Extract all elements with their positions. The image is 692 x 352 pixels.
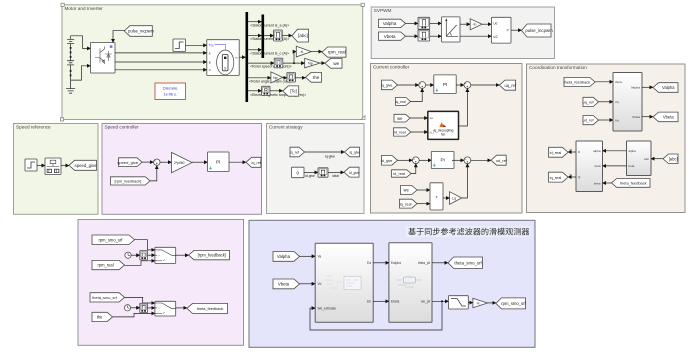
svg-text:Current controller: Current controller: [373, 65, 410, 70]
svg-text:-K-: -K-: [300, 50, 305, 54]
svg-text:A: A: [209, 51, 211, 55]
svg-text:the: the: [97, 315, 103, 320]
svg-text:theta_smo_srf: theta_smo_srf: [454, 260, 482, 265]
svg-text:id_give: id_give: [381, 159, 392, 163]
svg-text:[abc]: [abc]: [669, 156, 678, 161]
svg-text:S: S: [224, 66, 226, 70]
svg-text:fcn: fcn: [441, 132, 445, 136]
svg-text:pulse_incpwm: pulse_incpwm: [128, 29, 154, 34]
svg-text:Np: Np: [273, 76, 277, 80]
svg-text:Ealpha: Ealpha: [391, 261, 401, 265]
svg-text:Ud: Ud: [493, 22, 497, 26]
svg-text:id_real: id_real: [393, 171, 405, 176]
svg-text:iq_real: iq_real: [400, 201, 412, 206]
svg-text:Vq: Vq: [615, 100, 619, 104]
svg-text:<Stator current is_a (A)>: <Stator current is_a (A)>: [250, 23, 289, 27]
svg-text:P: P: [507, 29, 509, 33]
svg-text:Eb: Eb: [367, 300, 371, 304]
svg-text:ud_ref: ud_ref: [583, 118, 595, 123]
svg-text:SVPWM: SVPWM: [374, 8, 392, 13]
svg-text:thera: thera: [615, 80, 622, 84]
svg-text:theta: theta: [594, 181, 601, 185]
svg-text:x: x: [436, 195, 438, 199]
svg-text:Motor and Inverter: Motor and Inverter: [65, 6, 104, 11]
svg-text:iq_ref: iq_ref: [290, 151, 300, 155]
svg-text:2*pi/60: 2*pi/60: [174, 161, 184, 165]
svg-text:theta_feedback: theta_feedback: [620, 181, 647, 186]
svg-text:we: we: [430, 116, 434, 120]
svg-text:rpm_smo_srf: rpm_smo_srf: [501, 301, 526, 306]
svg-text:id_real: id_real: [394, 130, 406, 135]
svg-text:Vb: Vb: [318, 282, 322, 286]
svg-text:id_give: id_give: [349, 171, 360, 175]
svg-text:rpm_real: rpm_real: [97, 263, 113, 268]
svg-text:iq_real: iq_real: [396, 100, 406, 104]
svg-text:Valpha: Valpha: [277, 254, 291, 259]
svg-text:PI: PI: [443, 82, 447, 87]
svg-text:beta: beta: [629, 164, 635, 168]
svg-text:Vbeta: Vbeta: [632, 115, 640, 119]
svg-text:-K-: -K-: [476, 301, 480, 305]
svg-text:rpm_real: rpm_real: [328, 50, 346, 55]
svg-text:abc: abc: [644, 157, 649, 161]
svg-text:theta_smo_srf: theta_smo_srf: [92, 295, 118, 300]
svg-text:alpha: alpha: [593, 149, 601, 153]
svg-text:Coordination transformation: Coordination transformation: [529, 65, 587, 70]
svg-text:<Stator current is_b (A)>: <Stator current is_b (A)>: [250, 37, 289, 41]
svg-text:id_real: id_real: [550, 150, 562, 155]
svg-text:Ea: Ea: [367, 261, 371, 265]
svg-text:<Stator current is_c (A)>: <Stator current is_c (A)>: [250, 51, 289, 55]
svg-text:id-give: id-give: [305, 174, 315, 178]
svg-text:Ebeta: Ebeta: [391, 300, 400, 304]
svg-text:speed_give: speed_give: [75, 163, 98, 168]
svg-text:rpm_smo_srf: rpm_smo_srf: [99, 237, 124, 242]
svg-text:Vbeta: Vbeta: [663, 115, 674, 120]
svg-text:iq_give: iq_give: [381, 84, 392, 88]
svg-text:the: the: [313, 75, 320, 80]
svg-text:C: C: [209, 68, 211, 72]
svg-text:Speed reference: Speed reference: [16, 125, 51, 130]
svg-text:We_estimate: We_estimate: [318, 307, 337, 311]
svg-text:ud_ref: ud_ref: [496, 158, 508, 163]
svg-text:iq_real: iq_real: [550, 175, 562, 180]
svg-text:Lq: Lq: [452, 196, 456, 200]
svg-text:PI: PI: [216, 159, 220, 164]
svg-text:<Rotor speed wm (rad/s)>: <Rotor speed wm (rad/s)>: [250, 65, 292, 69]
svg-text:Tm: Tm: [209, 43, 214, 47]
svg-text:Discrete: Discrete: [163, 86, 178, 91]
svg-text:we_pll: we_pll: [421, 300, 430, 304]
svg-text:iq_give: iq_give: [350, 151, 361, 155]
svg-text:we: we: [404, 188, 410, 193]
svg-text:we: we: [397, 116, 403, 121]
svg-text:[rpm_feedback]: [rpm_feedback]: [198, 253, 226, 258]
svg-text:[Te]: [Te]: [290, 89, 297, 94]
svg-text:Vbeta: Vbeta: [278, 282, 290, 287]
svg-text:speed_give: speed_give: [117, 160, 138, 165]
svg-text:Current strategy: Current strategy: [269, 125, 303, 130]
svg-text:u/2: u/2: [493, 35, 498, 39]
svg-text:Speed controller: Speed controller: [105, 125, 140, 130]
svg-text:Valpha: Valpha: [662, 85, 675, 90]
svg-text:alpha: alpha: [629, 149, 637, 153]
svg-text:we: we: [333, 61, 339, 66]
svg-text:[abc]: [abc]: [298, 33, 308, 38]
svg-text:[rpm_feedback]: [rpm_feedback]: [114, 179, 141, 184]
svg-text:B: B: [209, 60, 211, 64]
svg-text:ideal: ideal: [332, 174, 339, 178]
svg-text:beta: beta: [595, 164, 601, 168]
svg-text:1e-06 s.: 1e-06 s.: [164, 92, 177, 96]
svg-text:id_r: id_r: [430, 130, 435, 134]
svg-text:theta_feedback: theta_feedback: [564, 80, 591, 85]
svg-text:theta_pll: theta_pll: [418, 261, 430, 265]
svg-text:Vd: Vd: [615, 118, 619, 122]
svg-text:PI: PI: [440, 158, 444, 163]
svg-text:uq_ref: uq_ref: [504, 83, 516, 88]
svg-text:uq_ref: uq_ref: [583, 100, 595, 105]
svg-text:-K-: -K-: [472, 23, 476, 27]
svg-text:Np: Np: [308, 62, 313, 66]
svg-text:iq_ref: iq_ref: [252, 161, 262, 165]
svg-text:theta_feedback: theta_feedback: [197, 306, 224, 311]
svg-text:pulse_incpwm: pulse_incpwm: [525, 28, 553, 33]
svg-text:iq-give: iq-give: [325, 155, 335, 159]
svg-text:Valpha: Valpha: [631, 86, 640, 90]
svg-text:Vbeta: Vbeta: [384, 34, 396, 39]
svg-text:Valpha: Valpha: [383, 21, 397, 26]
svg-text:Va: Va: [318, 255, 322, 259]
